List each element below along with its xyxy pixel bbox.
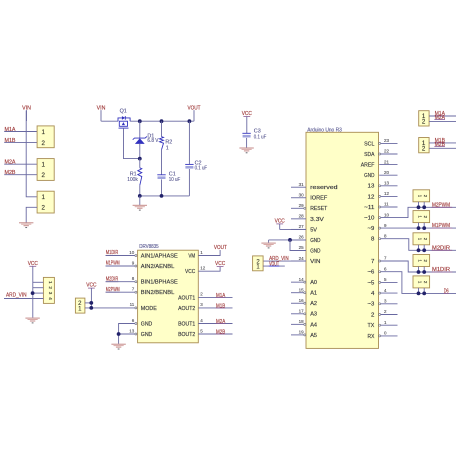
- Arduino pin bubble 15: [304, 292, 306, 294]
- wire GND pin 26: [269, 239, 306, 241]
- ground (protection circuit): [133, 205, 147, 210]
- wire U1 M1B: [198, 307, 232, 309]
- Arduino pin bubble 23: [379, 142, 381, 144]
- svg-text:11: 11: [384, 202, 389, 207]
- wire GND jog to pin 25: [290, 240, 306, 251]
- capacitor C3: [242, 133, 250, 137]
- connector J1 (M1 output, pins 1-2): [37, 126, 54, 148]
- svg-text:3: 3: [48, 292, 53, 295]
- Arduino pin bubble 6: [379, 271, 381, 273]
- svg-text:GND: GND: [141, 332, 153, 338]
- capacitor C1 (polarized): [157, 175, 165, 179]
- svg-text:8: 8: [132, 276, 135, 281]
- svg-text:M2B: M2B: [216, 330, 226, 336]
- wire ARD_VIN to header pin4: [4, 298, 43, 300]
- svg-text:A4: A4: [310, 322, 317, 328]
- Arduino pin stub 23: [381, 142, 398, 144]
- ground (C3): [239, 148, 253, 153]
- wire U1 M2A: [198, 323, 232, 325]
- U1 pin bubble: [135, 255, 137, 257]
- Arduino pin bubble 8: [379, 238, 381, 240]
- node junction M1DIR pin1: [417, 270, 421, 274]
- svg-text:0.1 uF: 0.1 uF: [254, 135, 267, 141]
- wire VIN rail vertical to J3 pin 1: [26, 111, 37, 197]
- wire J3 pin 2 to ground: [26, 207, 37, 222]
- node junction top (R2 branch): [160, 119, 164, 123]
- Arduino pin bubble 17: [304, 313, 306, 315]
- node junction D6 pin1: [417, 292, 421, 296]
- svg-text:10: 10: [129, 250, 135, 255]
- Arduino pin stub 20: [379, 174, 397, 176]
- svg-text:M2B: M2B: [5, 170, 17, 176]
- Arduino pin bubble 9: [379, 227, 381, 229]
- svg-text:Q1: Q1: [120, 108, 127, 114]
- svg-text:1: 1: [41, 129, 45, 136]
- wire header pin1: [33, 281, 44, 283]
- wire M2PWM jumper pin stubs: [418, 202, 420, 208]
- connector MODE jumper (pins 2,1): [75, 298, 85, 313]
- svg-text:0.1 uF: 0.1 uF: [195, 166, 208, 172]
- wire bus to ground: [139, 196, 141, 205]
- svg-text:19: 19: [299, 330, 305, 335]
- svg-text:AIN2/AENBL: AIN2/AENBL: [141, 264, 175, 270]
- svg-text:~9: ~9: [368, 226, 375, 232]
- wire C2 to ground bus: [188, 169, 190, 196]
- wire U1 M2B: [198, 333, 232, 335]
- svg-text:13: 13: [368, 184, 375, 190]
- U1 pin bubble: [135, 307, 137, 309]
- Arduino pin stub 17: [291, 313, 304, 315]
- U1 pin bubble: [135, 323, 137, 325]
- svg-text:BIN1/BPHASE: BIN1/BPHASE: [141, 280, 178, 286]
- svg-text:26: 26: [299, 235, 305, 240]
- connector M1B/M2B header (pins 1,2): [419, 138, 429, 153]
- node junction M2DIR pin2: [422, 248, 426, 252]
- svg-text:1: 1: [384, 320, 387, 325]
- wire M2B to J2 pin 2: [4, 174, 37, 176]
- svg-text:GND: GND: [310, 248, 320, 254]
- svg-text:17: 17: [299, 309, 305, 314]
- svg-text:~6: ~6: [368, 270, 375, 276]
- svg-text:M2A: M2A: [216, 319, 226, 325]
- ground (left connectors): [19, 223, 33, 228]
- Arduino pin bubble 3: [379, 303, 381, 305]
- Arduino pin bubble 7: [379, 260, 381, 262]
- svg-text:13: 13: [384, 181, 390, 186]
- connector J2 (M2 output, pins 1-2): [37, 159, 54, 181]
- svg-text:2: 2: [384, 309, 387, 314]
- node junction top (D1 branch): [138, 119, 142, 123]
- Arduino pin bubble 4: [379, 292, 381, 294]
- ground (U1): [111, 344, 125, 349]
- svg-text:R2: R2: [165, 139, 172, 145]
- svg-text:6: 6: [384, 266, 387, 271]
- ground (Arduino): [261, 243, 275, 248]
- svg-text:14: 14: [299, 277, 305, 282]
- Arduino pin bubble 29: [304, 207, 306, 209]
- wire M1DIR to U1: [106, 255, 135, 257]
- transistor Q1 (P-MOSFET with body diode): [4, 105, 456, 349]
- svg-text:GND: GND: [364, 173, 374, 179]
- connector ARDVIN=VOUT jumper (pins 2,1): [253, 256, 264, 271]
- wire M2DIR jumper pin stubs: [418, 245, 420, 251]
- svg-text:2: 2: [41, 140, 45, 147]
- Arduino pin stub 1: [381, 324, 398, 326]
- connector power-select header (pins 1-4): [43, 277, 54, 303]
- svg-text:SDA: SDA: [364, 152, 375, 158]
- svg-text:5: 5: [200, 328, 203, 333]
- svg-text:7: 7: [132, 287, 135, 292]
- svg-text:~10: ~10: [364, 216, 374, 222]
- node junction bus (R1): [138, 194, 142, 198]
- svg-text:M1B: M1B: [5, 138, 17, 144]
- svg-text:AOUT2: AOUT2: [178, 306, 195, 312]
- svg-text:SCL: SCL: [364, 141, 374, 147]
- connector M2PWM jumper: [413, 190, 430, 202]
- wire R1 to ground bus: [139, 185, 141, 196]
- wire ground bus: [140, 195, 190, 197]
- wire header pin2 M2A: [429, 120, 456, 122]
- svg-text:MODE: MODE: [141, 306, 157, 312]
- svg-text:31: 31: [299, 182, 305, 187]
- Arduino pin stub 0: [381, 335, 398, 337]
- connector M2DIR jumper: [413, 233, 430, 245]
- svg-text:29: 29: [299, 203, 305, 208]
- svg-text:M1B: M1B: [216, 304, 226, 310]
- Arduino pin stub 30: [291, 197, 306, 199]
- svg-text:4: 4: [200, 318, 203, 323]
- wire D1 anode to gate node: [139, 144, 141, 159]
- Arduino pin stub 24: [291, 260, 306, 262]
- Arduino pin bubble 12: [379, 195, 381, 197]
- resistor R2: [160, 137, 164, 150]
- wire M1B to J1 pin 2: [4, 141, 37, 143]
- U1 pin bubble: [135, 333, 137, 335]
- svg-text:5: 5: [384, 277, 387, 282]
- wire Arduino to M2PWM jumper: [381, 207, 456, 217]
- wire Q1 gate to D1/R1 node: [124, 128, 140, 159]
- svg-text:DRV8835: DRV8835: [139, 244, 159, 250]
- svg-text:AIN1/APHASE: AIN1/APHASE: [141, 253, 178, 259]
- svg-text:GND: GND: [141, 321, 153, 327]
- Arduino pin bubble 18: [304, 323, 306, 325]
- ground (power select): [25, 318, 39, 323]
- svg-text:24: 24: [299, 256, 305, 261]
- Arduino pin bubble 16: [304, 302, 306, 304]
- wire node to R1: [139, 159, 141, 168]
- svg-text:3: 3: [200, 302, 203, 307]
- wire GND branch to ground: [268, 240, 270, 243]
- wire Arduino to M2DIR jumper: [381, 239, 456, 251]
- IC Arduino Uno R3 body: [306, 132, 379, 348]
- svg-text:13: 13: [129, 328, 135, 333]
- svg-text:RESET: RESET: [310, 206, 328, 212]
- svg-text:1: 1: [41, 162, 45, 169]
- svg-text:4: 4: [48, 297, 53, 300]
- svg-text:7: 7: [371, 259, 374, 265]
- svg-text:20: 20: [384, 170, 390, 175]
- svg-text:1: 1: [41, 194, 45, 201]
- Arduino pin stub 3: [381, 303, 398, 305]
- node junction bus (C1): [160, 194, 164, 198]
- svg-text:RX: RX: [368, 334, 375, 340]
- node junction M2PWM pin2: [422, 205, 426, 209]
- node junction top (C2 branch): [188, 119, 192, 123]
- Arduino pin stub 26: [291, 239, 306, 241]
- IC U1 DRV8835 body: [138, 250, 199, 343]
- node junction M2DIR pin1: [417, 248, 421, 252]
- wire Arduino to M1DIR jumper: [381, 261, 456, 272]
- svg-text:BOUT2: BOUT2: [178, 332, 195, 338]
- svg-text:AOUT1: AOUT1: [178, 295, 195, 301]
- wire U1 GND pin 6: [119, 324, 135, 344]
- svg-text:A5: A5: [310, 333, 317, 339]
- svg-text:9: 9: [132, 260, 135, 265]
- Arduino pin stub 21: [379, 164, 397, 166]
- wire header pin1 M1A: [429, 115, 456, 117]
- node junction M1DIR pin2: [422, 270, 426, 274]
- Arduino pin bubble 5: [379, 281, 381, 283]
- svg-text:12: 12: [384, 191, 390, 196]
- svg-text:2: 2: [48, 286, 53, 289]
- svg-text:3: 3: [384, 299, 387, 304]
- Arduino pin bubble 13: [379, 185, 381, 187]
- node junction GND pins: [117, 332, 121, 336]
- Arduino pin stub 2: [381, 314, 398, 316]
- svg-text:9: 9: [384, 223, 387, 228]
- Arduino pin stub 25: [291, 250, 306, 252]
- Arduino pin stub 15: [291, 292, 304, 294]
- Arduino pin bubble 10: [379, 217, 381, 219]
- wire node to D1 cathode: [139, 121, 141, 138]
- svg-text:A2: A2: [310, 301, 317, 307]
- svg-text:M1A: M1A: [5, 127, 17, 133]
- wire VIN to Q1 source: [101, 120, 118, 122]
- svg-text:M1A: M1A: [216, 293, 226, 299]
- svg-text:0: 0: [384, 331, 387, 336]
- wire R2 to C1: [161, 150, 163, 175]
- U1 pin bubble: [135, 265, 137, 267]
- wire D6 jumper pin stubs: [418, 288, 420, 294]
- svg-text:BOUT1: BOUT1: [178, 321, 195, 327]
- wire M2DIR to U1: [106, 281, 135, 283]
- wire Arduino to M1PWM jumper: [381, 227, 456, 229]
- svg-text:10: 10: [384, 212, 390, 217]
- node junction VCC/pin2: [89, 301, 93, 305]
- Arduino pin stub 27: [291, 228, 306, 230]
- svg-text:ARD_VIN: ARD_VIN: [6, 293, 27, 299]
- Arduino pin stub 4: [381, 292, 398, 294]
- wire M1A to J1 pin 1: [4, 131, 37, 133]
- node junction GND26: [288, 238, 292, 242]
- svg-text:12: 12: [368, 194, 375, 200]
- wire jumper pin 1 to U1 MODE: [85, 307, 135, 309]
- Arduino pin stub 22: [381, 153, 398, 155]
- node junction gate/D1/R1: [138, 157, 142, 161]
- svg-text:VIN: VIN: [310, 259, 320, 265]
- Arduino pin stub 13: [381, 185, 398, 187]
- diode D1 (zener, cathode up): [4, 105, 456, 349]
- node junction VCC/pin1: [89, 306, 93, 310]
- svg-text:Arduino Uno R3: Arduino Uno R3: [307, 127, 342, 133]
- svg-text:2: 2: [422, 119, 426, 126]
- Arduino pin stub 12: [381, 195, 398, 197]
- wire VCC to 5V pin: [280, 228, 306, 230]
- svg-text:23: 23: [384, 138, 390, 143]
- svg-text:A3: A3: [310, 312, 317, 318]
- svg-text:A0: A0: [310, 280, 317, 286]
- svg-text:3.3V: 3.3V: [310, 217, 324, 223]
- svg-text:28: 28: [299, 214, 305, 219]
- wire jumper pin 2 to VCC rail: [85, 302, 91, 304]
- Arduino pin bubble 11: [379, 206, 381, 208]
- svg-text:16: 16: [299, 298, 305, 303]
- svg-text:~5: ~5: [368, 280, 375, 286]
- svg-text:15: 15: [299, 287, 305, 292]
- connector D6 jumper: [413, 276, 430, 288]
- wire header pin3: [33, 292, 44, 294]
- Arduino pin stub 29: [291, 207, 304, 209]
- node junction D6 pin2: [422, 292, 426, 296]
- Arduino pin stub 14: [291, 281, 304, 283]
- svg-text:11: 11: [130, 302, 135, 307]
- Arduino pin bubble 22: [379, 153, 381, 155]
- Arduino pin bubble 14: [304, 281, 306, 283]
- Arduino pin stub 5: [381, 281, 398, 283]
- svg-text:~3: ~3: [368, 302, 375, 308]
- svg-text:GND: GND: [310, 238, 320, 244]
- svg-text:TX: TX: [368, 323, 375, 329]
- svg-text:7: 7: [384, 256, 387, 261]
- wire VIN pin 24: [263, 260, 306, 262]
- wire U1 M1A: [198, 296, 232, 298]
- Arduino pin stub 31: [291, 186, 306, 188]
- resistor R1: [138, 168, 142, 186]
- wire C3 to ground: [246, 138, 248, 148]
- svg-text:21: 21: [384, 159, 390, 164]
- wire U1 GND pin 13: [119, 333, 135, 335]
- wire header pin1 M1B: [429, 142, 456, 144]
- connector M1PWM jumper: [413, 211, 430, 223]
- svg-text:12: 12: [200, 266, 206, 271]
- svg-text:8: 8: [384, 233, 387, 238]
- connector M1A/M2A header (pins 1,2): [419, 111, 429, 126]
- Arduino pin stub 18: [291, 323, 304, 325]
- wire M1PWM jumper pin stubs: [418, 223, 420, 229]
- connector J3 (power input, pins 1-2): [37, 191, 54, 213]
- svg-text:AREF: AREF: [361, 163, 375, 169]
- svg-text:VM: VM: [188, 253, 195, 259]
- Arduino pin stub 11: [381, 206, 398, 208]
- svg-text:18: 18: [299, 319, 305, 324]
- wire U1 VCC pin 12: [198, 267, 220, 271]
- node junction M1PWM pin1: [417, 226, 421, 230]
- svg-text:2: 2: [41, 172, 45, 179]
- wire jumper pin1 VOUT stub: [263, 265, 285, 267]
- svg-text:10 uF: 10 uF: [169, 177, 181, 183]
- svg-text:2: 2: [41, 205, 45, 212]
- svg-text:6: 6: [132, 318, 135, 323]
- capacitor C2: [185, 164, 193, 168]
- svg-text:2: 2: [371, 312, 374, 318]
- connector M1DIR jumper: [413, 255, 430, 267]
- svg-text:2: 2: [200, 292, 203, 297]
- svg-text:IOREF: IOREF: [310, 196, 328, 202]
- wire M2PWM to U1: [106, 291, 135, 293]
- svg-text:30: 30: [299, 192, 305, 197]
- svg-text:27: 27: [299, 224, 305, 229]
- svg-text:M2B: M2B: [435, 142, 446, 148]
- svg-text:BIN2/BENBL: BIN2/BENBL: [141, 290, 175, 296]
- node junction M2PWM pin1: [417, 205, 421, 209]
- svg-text:2: 2: [422, 146, 426, 153]
- wire C1 to ground bus: [161, 179, 163, 196]
- svg-text:100k: 100k: [127, 177, 138, 183]
- svg-text:1: 1: [200, 250, 203, 255]
- svg-text:25: 25: [299, 245, 305, 250]
- wire VOUT branch to C2: [188, 121, 190, 164]
- wire node to R2: [161, 121, 163, 137]
- svg-text:reserved: reserved: [310, 185, 337, 191]
- svg-text:6.8 V: 6.8 V: [147, 138, 158, 144]
- U1 pin bubble: [135, 281, 137, 283]
- wire M1PWM to U1: [106, 265, 135, 267]
- svg-text:M2A: M2A: [5, 160, 17, 166]
- node junction pin3: [31, 291, 35, 295]
- svg-text:~11: ~11: [364, 205, 374, 211]
- wire header pin2: [33, 287, 44, 289]
- wire M2A to J2 pin 1: [4, 163, 37, 165]
- wire Q1 drain to VOUT: [130, 120, 194, 122]
- svg-text:8: 8: [371, 237, 374, 243]
- svg-text:VOUT: VOUT: [214, 245, 228, 251]
- svg-text:4: 4: [371, 291, 374, 297]
- wire Arduino to D6 jumper: [381, 272, 456, 294]
- Arduino pin stub 28: [291, 218, 306, 220]
- svg-text:5V: 5V: [310, 227, 317, 233]
- wire U1 VM to VOUT: [198, 250, 220, 256]
- Arduino pin bubble 19: [304, 334, 306, 336]
- wire header pin2 M2B: [429, 147, 456, 149]
- svg-text:VCC: VCC: [185, 269, 195, 275]
- svg-text:22: 22: [384, 149, 390, 154]
- svg-text:4: 4: [384, 288, 387, 293]
- Arduino pin stub 16: [291, 302, 304, 304]
- wire M1DIR jumper pin stubs: [418, 267, 420, 273]
- svg-text:1: 1: [166, 146, 169, 152]
- U1 pin bubble: [135, 291, 137, 293]
- Arduino pin bubble 2: [379, 314, 381, 316]
- Arduino pin stub 19: [291, 334, 304, 336]
- svg-text:A1: A1: [310, 291, 317, 297]
- Arduino pin bubble 0: [379, 335, 381, 337]
- svg-text:1: 1: [48, 281, 53, 284]
- Arduino pin bubble 1: [379, 324, 381, 326]
- node junction M1PWM pin2: [422, 226, 426, 230]
